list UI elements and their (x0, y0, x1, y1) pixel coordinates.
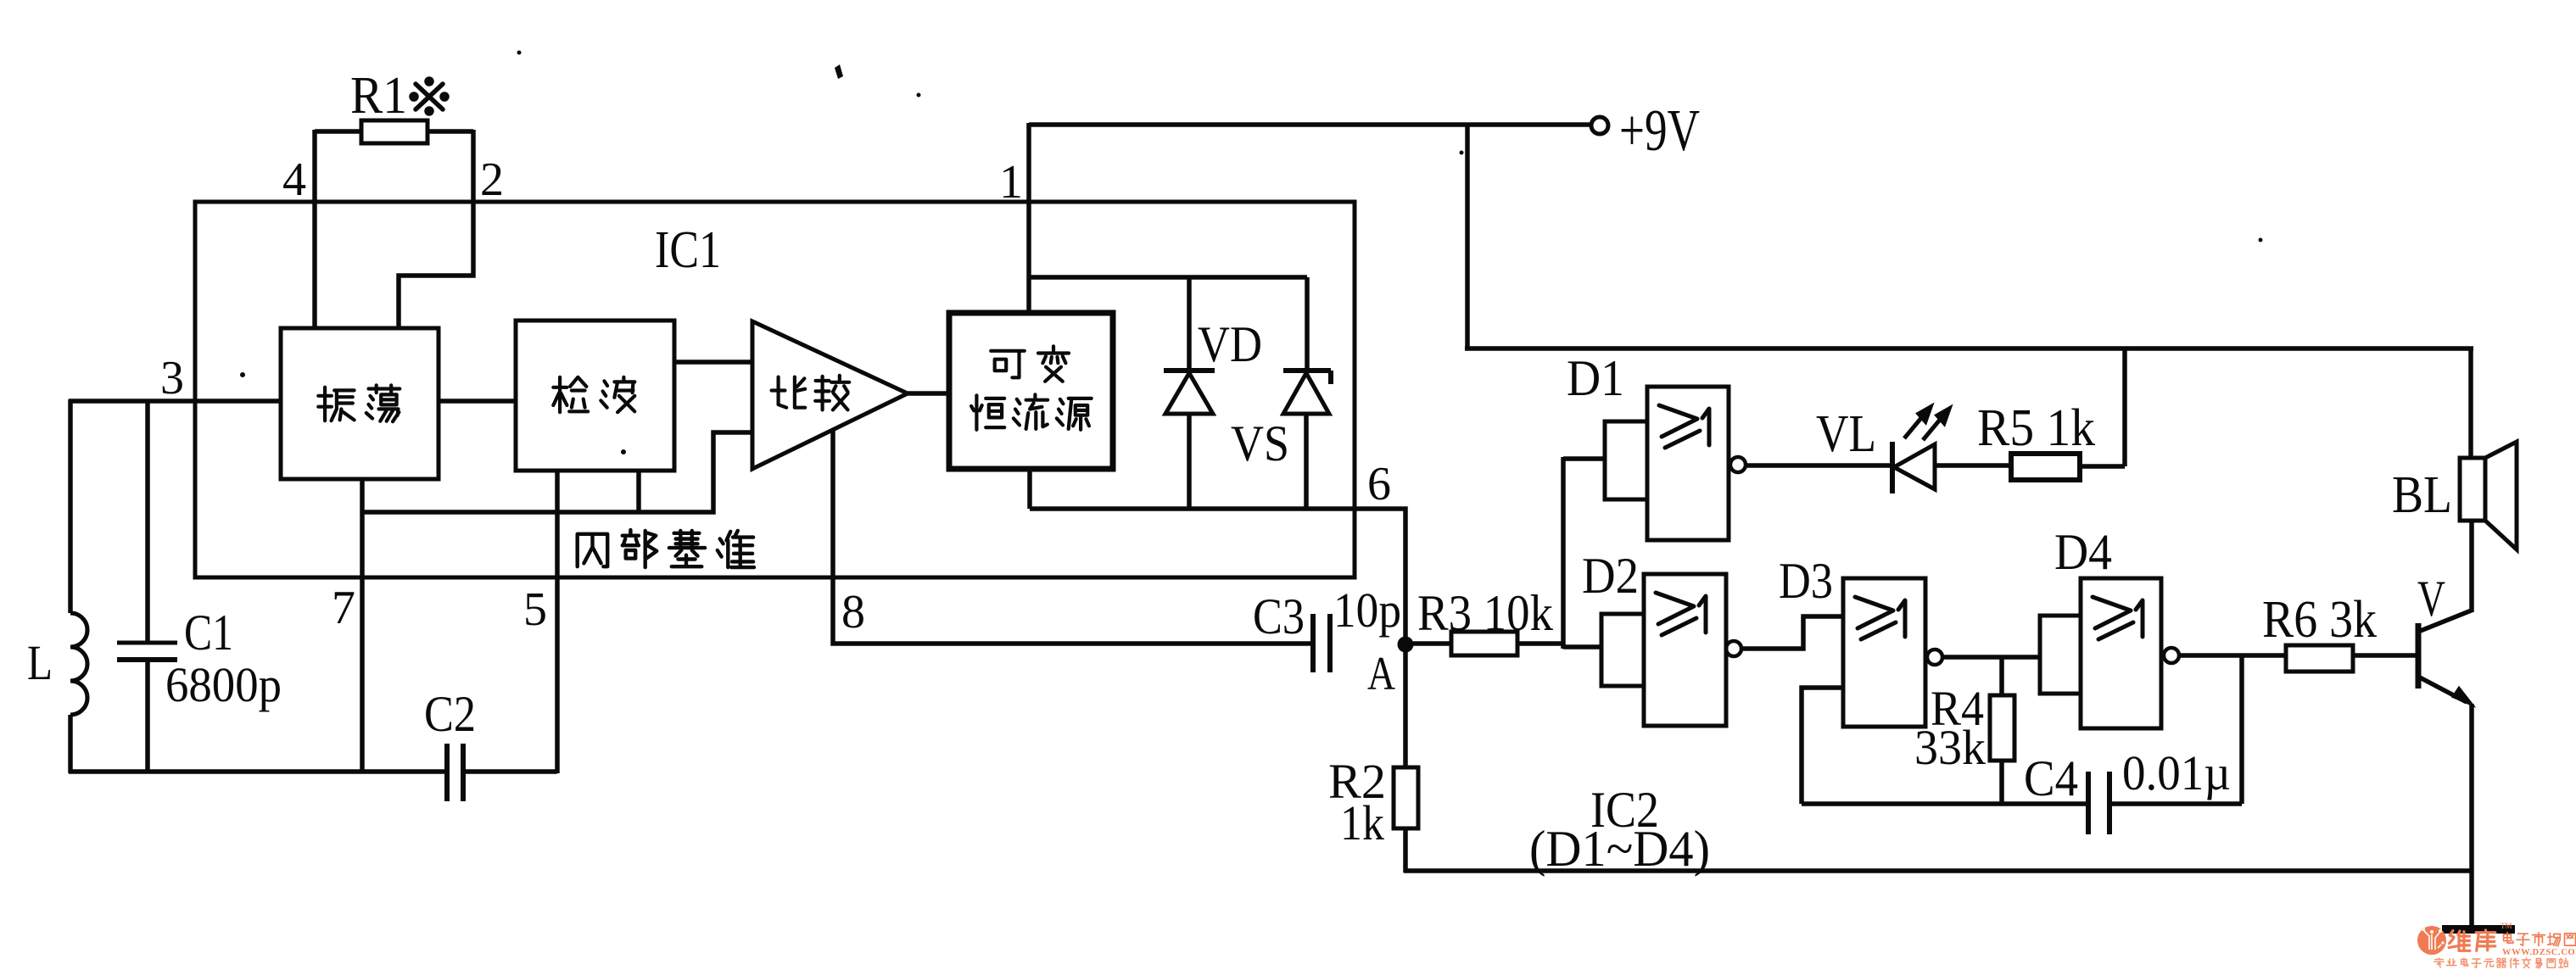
svg-text:(D1~D4): (D1~D4) (1529, 821, 1710, 877)
svg-text:D1: D1 (1567, 350, 1624, 406)
svg-text:1k: 1k (1340, 795, 1384, 850)
svg-text:5: 5 (523, 583, 547, 636)
LED VL (1890, 442, 1895, 493)
R1 reference mark (kome) (411, 79, 447, 114)
svg-text:TM: TM (2501, 922, 2512, 930)
pin 2 wire (399, 130, 473, 328)
variable constant-current source block (949, 313, 1113, 469)
svg-text:8: 8 (841, 586, 865, 638)
pin 6 wire from current source bottom (1027, 467, 1032, 509)
svg-text:R6 3k: R6 3k (2262, 591, 2377, 649)
svg-text:10p: 10p (1333, 583, 1401, 638)
IC1 outline box (195, 202, 1355, 577)
wire: bottom-left ground loop (69, 769, 447, 774)
svg-text:VL: VL (1816, 405, 1876, 463)
scan speckle marks (240, 51, 2263, 455)
resistor R3 (1413, 641, 1451, 646)
svg-text:6: 6 (1367, 458, 1391, 510)
pin 7 wire (360, 479, 365, 773)
svg-text:BL: BL (2392, 466, 2452, 524)
resistor R2 (1403, 652, 1408, 767)
OR gate D2 (1601, 614, 1644, 686)
OR gate D4 (2040, 616, 2081, 694)
watermark slogan (2434, 958, 2444, 967)
wire: rail drop to speaker BL (2468, 347, 2473, 458)
svg-text:A: A (1367, 648, 1395, 700)
svg-text:D4: D4 (2054, 524, 2112, 580)
wire: D1 output to LED VL (1746, 463, 1891, 468)
wire: D2 output to D3 input (1741, 616, 1843, 649)
pin 4 wire (312, 130, 317, 328)
speaker BL (2460, 458, 2485, 521)
diode VD (1187, 277, 1192, 372)
svg-text:6800p: 6800p (165, 657, 282, 712)
wire: D4 output to R6 (2179, 653, 2286, 658)
svg-text:WWW.DZSC.COM: WWW.DZSC.COM (2502, 948, 2576, 957)
svg-text:C4: C4 (2024, 750, 2078, 806)
pin 8 wire (833, 430, 1313, 644)
wire: VD VS top bus (1029, 275, 1307, 280)
svg-text:C2: C2 (424, 686, 476, 742)
watermark logo circle (2417, 926, 2446, 955)
svg-text:D3: D3 (1779, 553, 1833, 609)
wire: C4 up to D4 output (2239, 655, 2244, 804)
svg-text:4: 4 (282, 153, 306, 206)
watermark title weiku (2449, 931, 2470, 951)
internal reference label (nei bu ji zhun) (578, 534, 608, 566)
ground symbol (2442, 925, 2515, 934)
capacitor C4 (2086, 772, 2091, 834)
wire: emitter down to ground (2469, 704, 2474, 928)
svg-text:V: V (2417, 571, 2445, 627)
svg-text:R1: R1 (350, 67, 407, 125)
svg-text:0.01µ: 0.01µ (2122, 745, 2231, 800)
zener diode VS (1305, 277, 1310, 372)
svg-text:2: 2 (480, 153, 504, 206)
internal reference wire (362, 432, 752, 512)
svg-text:C3: C3 (1253, 588, 1305, 644)
svg-text:C1: C1 (184, 605, 233, 661)
svg-text:IC1: IC1 (655, 221, 721, 279)
capacitor C1 (145, 399, 150, 642)
detector bottom pin wire (636, 471, 641, 512)
pin 3 wire (69, 399, 281, 404)
wire: logic-gate +V rail (1465, 346, 2473, 351)
svg-text:1: 1 (999, 156, 1023, 209)
svg-text:33k: 33k (1914, 720, 1986, 775)
capacitor C3 (1310, 614, 1316, 672)
comparator triangle (bi jiao) (752, 321, 908, 469)
oscillator block (zhen dang) (281, 328, 439, 479)
resistor R6 (2286, 645, 2353, 672)
wire: D3 feedback input arm (1802, 688, 1843, 804)
transistor V (2416, 623, 2422, 688)
svg-text:VS: VS (1231, 415, 1289, 471)
resistor R5 (2011, 454, 2080, 480)
resistor R1 (361, 120, 427, 143)
pin 5 wire (555, 471, 560, 773)
detector block (jian bo) (516, 321, 674, 471)
+9V terminal circle (1591, 117, 1608, 134)
capacitor C2 (444, 744, 450, 801)
svg-text:R3 10k: R3 10k (1417, 585, 1553, 641)
inductor L (68, 399, 73, 613)
wire: comparator output to current source (908, 391, 949, 396)
OR gate D3 (1843, 578, 1925, 727)
resistor R4 (1999, 657, 2004, 695)
svg-text:D2: D2 (1582, 548, 1639, 604)
pin 1 wire (1026, 123, 1031, 315)
wire: +9V supply rail (1029, 122, 1590, 127)
wire: astable feedback bottom (1802, 801, 2088, 806)
node A junction dot (1398, 637, 1414, 653)
svg-text:VD: VD (1198, 316, 1262, 372)
svg-text:R5 1k: R5 1k (1977, 399, 2095, 457)
OR gate D1 (1605, 421, 1647, 499)
svg-text:+9V: +9V (1619, 98, 1700, 164)
svg-text:7: 7 (332, 582, 355, 634)
wire: +9V drop to logic-gate rail (1465, 123, 1470, 348)
R5 wire up to rail (2122, 347, 2127, 466)
wire: detector to comparator (674, 360, 752, 365)
wire: collector up to speaker (2469, 521, 2474, 611)
wire: bottom ground rail (1404, 868, 2473, 873)
svg-text:3: 3 (160, 352, 184, 404)
watermark site name (2504, 933, 2513, 943)
svg-text:L: L (27, 635, 53, 690)
wire: D3 output to D4 input (1942, 655, 2040, 660)
wire: R3 output to gates D1 D2 (1561, 457, 1566, 649)
wire: oscillator to detector (439, 399, 516, 404)
